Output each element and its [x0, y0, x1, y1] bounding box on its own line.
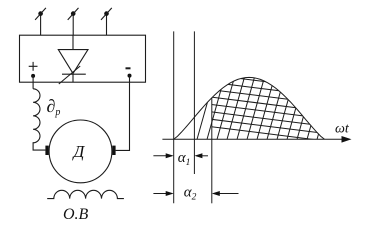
- svg-text:∂р: ∂р: [47, 96, 61, 118]
- minus sign: [126, 67, 131, 69]
- half-sine voltage curve: [174, 77, 325, 139]
- AC terminal 3 wire: [106, 14, 108, 36]
- svg-text:О.В: О.В: [63, 206, 89, 222]
- motor brush right: [112, 146, 115, 155]
- thyristor VS gate stroke: [59, 66, 80, 84]
- vertical line alpha1: [193, 31, 195, 174]
- motor brush left: [45, 146, 48, 155]
- AC terminal 1 wire: [40, 14, 42, 36]
- thyristor VS cathode lead: [72, 74, 74, 82]
- node dot positive: [31, 74, 35, 78]
- converter box U1: [20, 35, 146, 82]
- svg-text:α2: α2: [184, 184, 197, 202]
- AC terminal 3 tick: [101, 8, 112, 20]
- hatch shallow alpha2 area: [205, 67, 332, 142]
- AC terminal 1 dot: [38, 11, 43, 16]
- reactor Dr coil: [33, 89, 40, 143]
- axis arrowhead: [342, 136, 352, 143]
- dimension alpha2 right arrow: [214, 193, 239, 195]
- thyristor VS anode lead: [72, 35, 74, 49]
- wire reactor to motor brush: [33, 142, 45, 150]
- AC terminal 1 tick: [35, 8, 46, 20]
- plus sign: [29, 62, 38, 71]
- vertical line alpha2: [211, 98, 213, 204]
- dimension alpha2 left arrow: [153, 193, 171, 195]
- svg-text:Д: Д: [72, 142, 86, 161]
- dimension alpha1 left arrow: [153, 155, 171, 157]
- thyristor VS cathode bar: [62, 73, 86, 75]
- wire positive down to reactor: [32, 76, 34, 89]
- wire negative down: [116, 76, 130, 151]
- AC terminal 2 wire: [72, 14, 74, 36]
- AC terminal 3 dot: [104, 11, 109, 16]
- field winding OV coil: [47, 190, 124, 198]
- svg-text:α1: α1: [178, 150, 191, 168]
- AC terminal 2 tick: [68, 8, 79, 20]
- svg-text:ωt: ωt: [335, 122, 350, 137]
- motor M circle: [49, 120, 112, 183]
- thyristor VS triangle: [58, 50, 88, 74]
- omega-t axis: [162, 138, 349, 140]
- hatch steep alpha1 area: [196, 70, 346, 142]
- vertical line zero crossing: [173, 31, 175, 203]
- node dot negative: [128, 74, 132, 78]
- AC terminal 2 dot: [71, 11, 76, 16]
- dimension alpha1 right arrow: [196, 155, 208, 157]
